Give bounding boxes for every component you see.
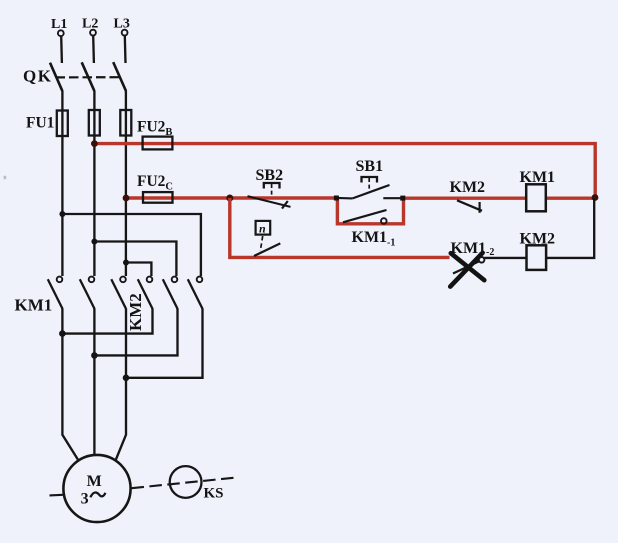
wire: KM2 pole3 bottom tie to phase C (126, 309, 203, 378)
svg-text:KM1: KM1 (15, 296, 53, 315)
svg-text:FU1: FU1 (26, 115, 54, 132)
wire phase A: QK to KM1 contact (61, 91, 63, 277)
wire: red feed from FU2B tap to right rail (94, 144, 595, 198)
wire: red branch row2 to KM1-2 (230, 198, 450, 257)
junction: motor tie W (123, 375, 130, 382)
terminal L2 (82, 17, 98, 36)
wire: right rail black to KM2 coil (546, 198, 594, 258)
svg-text:M: M (87, 473, 102, 490)
cross-out X mark (450, 253, 484, 287)
junction: branch tap for speed-switch row (226, 195, 233, 202)
wire: red SB1 bypass loop via KM1-1 (337, 198, 403, 224)
fuse FU1 phase C (120, 110, 131, 136)
wire: KM1-2 to KM2 coil (484, 257, 526, 259)
wire phase C: QK to KM1 contact (125, 91, 127, 277)
wire: KM2 pole2 bottom tie to phase B (94, 309, 177, 356)
svg-text:L3: L3 (114, 17, 130, 32)
wire: phase B to motor (93, 309, 95, 457)
fuse FU1 phase A (57, 111, 68, 137)
wire: KM2 pole1 bottom tie to phase A (62, 309, 152, 334)
junction: L3 crossover tap (123, 260, 129, 266)
pushbutton SB2 (NC) (248, 183, 291, 209)
terminal L3 (114, 17, 130, 36)
fuse FU2B (143, 137, 173, 150)
junction: motor tie V (91, 352, 98, 359)
wire: L2 to KM2 pole 2 (94, 242, 176, 277)
terminal L1 (51, 17, 67, 36)
fuse FU1 phase B (89, 110, 100, 136)
svg-text:SB1: SB1 (356, 158, 384, 175)
wire: L1 to KM2 pole 3 (62, 214, 201, 276)
wire L1 to QK (60, 36, 63, 63)
scan artifact speck (4, 176, 7, 179)
svg-text:L1: L1 (51, 17, 67, 32)
wire: phase C to motor (116, 309, 127, 461)
svg-text:KM1-2: KM1-2 (451, 240, 495, 258)
junction: L1 crossover tap (59, 211, 65, 217)
knife switch QK pole 1 (50, 63, 62, 91)
fuse FU2C (143, 192, 173, 203)
shaft dashed line left (50, 494, 63, 497)
knife switch QK pole 2 (82, 62, 95, 91)
contactor KM2 main contact pole 2 (163, 277, 178, 309)
wire L3 to QK (124, 36, 127, 63)
svg-text:KM2: KM2 (520, 231, 556, 248)
svg-text:KM1-1: KM1-1 (352, 229, 396, 249)
wire: phase A to motor (62, 309, 78, 461)
svg-text:L2: L2 (82, 17, 98, 32)
QK linkage dashed line (56, 76, 122, 78)
knife switch QK pole 3 (113, 62, 126, 91)
wire L2 to QK (92, 36, 95, 63)
svg-text:3: 3 (81, 491, 89, 508)
pushbutton SB1 (NO) (336, 177, 402, 198)
junction: L2 crossover tap (91, 239, 97, 245)
contact KM2 NC (457, 200, 482, 213)
contact KM1-2 (crossed out, open) (453, 257, 484, 274)
contactor KM2 main contact pole 1 (138, 277, 153, 309)
shaft dashed line right (132, 478, 234, 488)
junction: FU2B tap on phase B (91, 140, 98, 147)
contactor KM1 main contact pole 2 (80, 277, 95, 309)
svg-text:FU2B: FU2B (137, 119, 172, 139)
coil KM2 (527, 245, 547, 270)
wire: red control row1 FU2C to SB1 (126, 196, 336, 199)
contactor KM1 main contact pole 1 (48, 277, 63, 309)
svg-text:QK: QK (23, 67, 52, 86)
junction SB1 left (334, 196, 339, 201)
junction: FU2C tap on phase C (123, 195, 130, 202)
svg-text:KM2: KM2 (126, 293, 145, 331)
wire phase B: QK to KM1 contact (93, 91, 95, 277)
contactor KM1 main contact pole 3 (111, 277, 126, 309)
wire: red row1 SB1 to right rail (404, 196, 596, 199)
svg-text:KM2: KM2 (450, 179, 486, 196)
svg-text:FU2C: FU2C (137, 173, 173, 193)
contactor KM2 main contact pole 3 (188, 277, 203, 309)
svg-text:n: n (259, 222, 266, 236)
svg-text:KS: KS (204, 486, 224, 502)
coil KM1 (526, 184, 546, 211)
svg-text:SB2: SB2 (256, 167, 284, 184)
speed sensor KS circle (170, 466, 202, 498)
junction: motor tie U (59, 330, 66, 337)
auxiliary contact KM1-1 (343, 210, 387, 224)
junction: right rail top (592, 194, 599, 201)
motor M (63, 455, 130, 522)
speed switch contact KS with n box (254, 221, 280, 256)
svg-text:KM1: KM1 (520, 169, 556, 186)
wire: L3 to KM2 pole 1 (126, 263, 151, 277)
junction SB1 right (400, 196, 405, 201)
